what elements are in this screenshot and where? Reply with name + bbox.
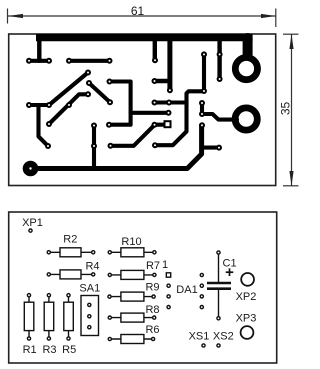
svg-text:R7: R7	[146, 260, 160, 272]
pad	[67, 103, 71, 107]
wire: pad pair row1 left	[29, 59, 49, 63]
pad	[67, 59, 71, 63]
pad	[46, 144, 50, 148]
wire: vertical pad(204,54.4)-(204,91)	[202, 54, 206, 91]
pad	[27, 103, 31, 107]
pad	[86, 92, 90, 96]
pad	[92, 144, 96, 148]
resistor R4	[49, 270, 93, 279]
pad	[108, 100, 112, 104]
ring pad 1 (big)	[235, 58, 257, 80]
pad	[218, 77, 222, 81]
svg-text:XS1: XS1	[189, 331, 210, 343]
pad	[27, 59, 31, 63]
dimension 61 line	[8, 9, 277, 28]
wire: horizontal (154.5,102.5)-(186.5,102.5)	[155, 100, 187, 104]
svg-text:R9: R9	[145, 281, 159, 293]
pad	[109, 144, 113, 148]
resistor R9	[110, 292, 154, 301]
svg-text:XP1: XP1	[22, 217, 43, 229]
pad	[86, 71, 90, 75]
switch SA1 pins	[88, 303, 91, 306]
pad	[218, 52, 222, 56]
capacitor C1 lead	[218, 254, 220, 282]
pad	[200, 101, 204, 105]
socket XS2 pin	[217, 344, 220, 347]
pad	[168, 88, 172, 92]
capacitor C1 plus sign	[226, 271, 234, 273]
svg-text:R1: R1	[23, 344, 37, 356]
svg-text:C1: C1	[223, 257, 237, 269]
wire: bar drop x=219.6 through pads	[217, 38, 221, 79]
pad	[92, 124, 96, 128]
svg-text:XS2: XS2	[213, 331, 234, 343]
pad	[200, 112, 204, 116]
pad	[202, 52, 206, 56]
board outline (bottom panel)	[9, 212, 277, 363]
pad	[200, 123, 204, 127]
pad	[217, 146, 221, 150]
wire: pad pair (29,105)-(49,105)	[29, 103, 49, 107]
resistor R6	[110, 335, 153, 344]
big filled pad bottom-left	[23, 161, 39, 177]
svg-text:R6: R6	[145, 324, 159, 336]
capacitor C1 pins	[217, 251, 220, 254]
wire: stub to pad(219,147.5)	[202, 146, 219, 150]
wire: top ground bar	[36, 34, 253, 41]
wire: branch from L-trace to pad(168.5,112.8)	[131, 111, 169, 115]
pads (small ring pads)	[27, 52, 222, 149]
pad	[47, 59, 51, 63]
resistor R1 (vertical)	[24, 295, 34, 338]
pad	[153, 123, 157, 127]
pad	[202, 89, 206, 93]
pad	[108, 80, 112, 84]
svg-text:SA1: SA1	[79, 283, 100, 295]
wire: diagonal pad(49,124) through (69,105) to pad(88,94)	[49, 94, 88, 124]
svg-text:R8: R8	[145, 304, 159, 316]
wire: vertical pad(202,103)-(202,114)	[200, 103, 204, 114]
connector XP3 circle	[241, 326, 254, 339]
pad	[87, 81, 91, 85]
traces	[29, 38, 253, 169]
wire: pad pair row1 mid	[69, 59, 110, 63]
socket XS1 pin	[202, 344, 205, 347]
IC DA1 pins left column	[167, 284, 170, 287]
wire: bar drop to left pad pair	[37, 38, 41, 61]
IC DA1 pins right column	[200, 273, 203, 276]
wire: bar drop x=170 to pad (170,90)	[167, 38, 172, 90]
svg-text:R3: R3	[42, 344, 56, 356]
svg-text:XP2: XP2	[236, 291, 257, 303]
connector XP2 circle	[241, 273, 254, 286]
wire: bar drop to pad (155,60)	[153, 38, 157, 60]
wire: long bottom trace from big dot to pad(202,125)	[31, 125, 202, 168]
dimension 61 arrows	[8, 14, 23, 18]
IC DA1 pin 1 (square)	[166, 273, 170, 277]
wire: diagonal pad(89,83) to pad(110,102)	[89, 83, 110, 102]
wire: diagonal pad(88,72.5) to pad(49,105)	[49, 73, 88, 106]
wire: vertical pads (94,125.5)-(94,146) down to long trace	[92, 126, 96, 169]
ring pad 2 (big)	[235, 108, 257, 130]
wire: L-trace pad(109.5,81.5) right,down,left to pad(109,124.7)	[109, 82, 131, 125]
wire: diagonal pad(154.5,124.7) down-left to pad(110.5,146)	[111, 125, 155, 146]
wire: bar stub to ring pad 1	[243, 38, 253, 55]
switch SA1 body	[81, 296, 99, 336]
svg-text:35: 35	[279, 102, 293, 116]
connector XP1 pin	[29, 229, 32, 232]
dimension 35 arrows	[289, 34, 293, 49]
resistor R8	[110, 313, 154, 322]
pad	[153, 58, 157, 62]
pad	[167, 111, 171, 115]
svg-text:R2: R2	[63, 234, 77, 246]
pad	[47, 103, 51, 107]
wire: zigzag from pad(202,114) to ring pad 2	[202, 114, 237, 120]
pad	[167, 101, 171, 105]
resistor R2	[49, 248, 93, 257]
square pad (pin 1) top panel	[165, 121, 171, 127]
capacitor C1 plates	[207, 282, 231, 285]
svg-text:1: 1	[162, 259, 168, 271]
svg-text:61: 61	[131, 4, 145, 18]
pad	[153, 79, 157, 83]
resistor R5 (vertical)	[64, 295, 74, 338]
pad	[153, 101, 157, 105]
svg-text:DA1: DA1	[176, 284, 197, 296]
resistor R7	[110, 270, 155, 279]
wire: stub from pad (154.5,81) to drop x=170	[155, 79, 170, 83]
svg-text:XP3: XP3	[236, 313, 257, 325]
board outline (top panel)	[9, 34, 276, 186]
svg-text:R5: R5	[62, 344, 76, 356]
svg-text:R10: R10	[121, 236, 141, 248]
wire: pad(154.5,124.7) to square pad	[155, 123, 167, 127]
resistor R3 (vertical)	[44, 295, 54, 338]
dimension 35 line	[283, 34, 299, 186]
pad	[153, 143, 157, 147]
pad	[108, 59, 112, 63]
pad	[107, 123, 111, 127]
wire: T drop from (38.5,105) with 45 bend to pad (48,146)	[39, 105, 48, 146]
resistor R10	[110, 248, 155, 257]
wire: net from pad(204,91) left, down x=186.5, 45 bend to pad(155,145.2)	[155, 91, 204, 145]
pad	[47, 122, 51, 126]
svg-text:R4: R4	[85, 261, 99, 273]
